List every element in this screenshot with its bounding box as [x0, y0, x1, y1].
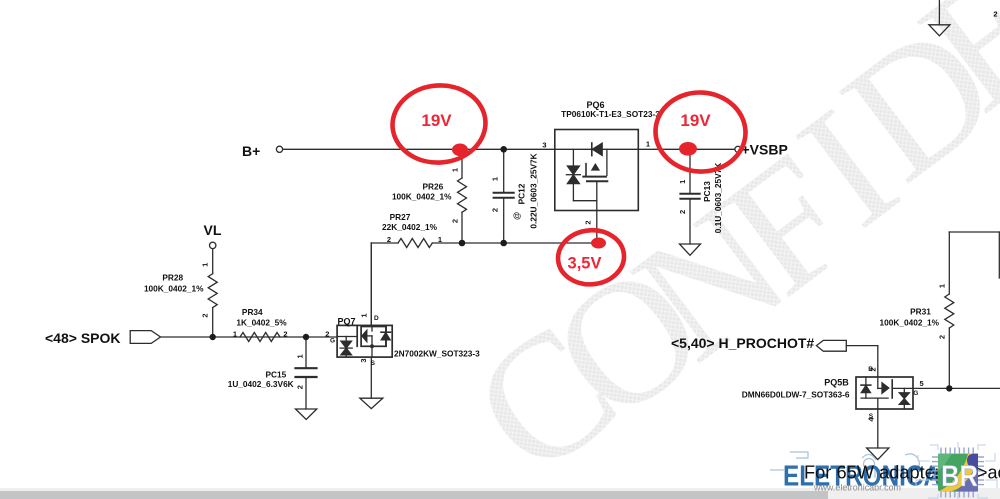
svg-text:2: 2 — [387, 235, 391, 244]
svg-text:1: 1 — [360, 313, 369, 317]
svg-text:3: 3 — [542, 141, 546, 150]
svg-text:2: 2 — [201, 314, 210, 318]
svg-text:B: B — [868, 366, 873, 373]
svg-text:PR34: PR34 — [242, 307, 263, 317]
svg-text:100K_0402_1%: 100K_0402_1% — [144, 283, 204, 293]
svg-text:BR: BR — [941, 460, 978, 493]
svg-text:PR31: PR31 — [910, 307, 931, 317]
svg-text:@: @ — [512, 212, 522, 220]
svg-text:1: 1 — [678, 180, 687, 184]
svg-text:1U_0402_6.3V6K: 1U_0402_6.3V6K — [228, 379, 294, 389]
svg-text:1: 1 — [646, 140, 650, 149]
svg-text:1: 1 — [438, 235, 442, 244]
svg-text:>ac: >ac — [977, 463, 1000, 483]
svg-text:1: 1 — [938, 284, 947, 288]
svg-text:PR27: PR27 — [390, 212, 411, 222]
svg-text:0.1U_0603_25V7K: 0.1U_0603_25V7K — [713, 163, 723, 234]
svg-text:PC15: PC15 — [266, 369, 287, 379]
svg-text:2: 2 — [295, 385, 304, 389]
svg-text:2: 2 — [678, 210, 687, 214]
svg-text:2N7002KW_SOT323-3: 2N7002KW_SOT323-3 — [394, 348, 480, 358]
svg-text:2: 2 — [584, 220, 593, 224]
svg-text:1K_0402_5%: 1K_0402_5% — [236, 317, 287, 327]
svg-text:PC13: PC13 — [702, 181, 712, 202]
svg-text:+VSBP: +VSBP — [742, 142, 788, 158]
svg-text:PR28: PR28 — [162, 273, 183, 283]
svg-text:<5,40> H_PROCHOT#: <5,40> H_PROCHOT# — [671, 335, 814, 351]
svg-text:2: 2 — [451, 219, 460, 223]
svg-text:<48> SPOK: <48> SPOK — [45, 330, 121, 346]
svg-text:DMN66D0LDW-7_SOT363-6: DMN66D0LDW-7_SOT363-6 — [742, 389, 850, 399]
svg-text:VL: VL — [204, 222, 222, 238]
svg-text:G: G — [330, 338, 335, 345]
svg-text:100K_0402_1%: 100K_0402_1% — [880, 318, 940, 328]
svg-text:For 65W adapter: For 65W adapter — [804, 462, 941, 483]
svg-text:2: 2 — [993, 10, 997, 19]
svg-text:5: 5 — [920, 379, 924, 388]
svg-text:3,5V: 3,5V — [568, 255, 602, 273]
svg-text:S: S — [869, 413, 874, 420]
svg-text:1: 1 — [491, 177, 500, 181]
svg-text:1: 1 — [451, 168, 460, 172]
svg-text:3: 3 — [359, 358, 368, 362]
svg-text:19V: 19V — [680, 111, 711, 130]
svg-text:TP0610K-T1-E3_SOT23-3: TP0610K-T1-E3_SOT23-3 — [561, 109, 660, 119]
svg-text:1: 1 — [201, 263, 210, 267]
svg-text:www.eletronicabr.com: www.eletronicabr.com — [813, 483, 901, 493]
svg-text:PQ7: PQ7 — [337, 316, 355, 326]
svg-text:2: 2 — [325, 330, 329, 339]
svg-text:PC12: PC12 — [517, 183, 527, 204]
svg-text:PQ5B: PQ5B — [824, 378, 849, 388]
svg-text:1: 1 — [295, 354, 304, 358]
svg-text:PR26: PR26 — [423, 182, 444, 192]
svg-text:S: S — [371, 360, 376, 367]
svg-text:D: D — [374, 315, 379, 322]
svg-text:2: 2 — [938, 335, 947, 339]
svg-text:2: 2 — [491, 208, 500, 212]
svg-text:0.22U_0603_25V7K: 0.22U_0603_25V7K — [529, 153, 539, 228]
svg-text:2: 2 — [283, 330, 287, 339]
svg-text:1: 1 — [233, 330, 237, 339]
svg-text:22K_0402_1%: 22K_0402_1% — [382, 222, 438, 232]
svg-text:100K_0402_1%: 100K_0402_1% — [392, 192, 452, 202]
svg-text:G: G — [913, 390, 918, 397]
svg-text:19V: 19V — [421, 111, 452, 130]
svg-text:B+: B+ — [242, 143, 260, 159]
